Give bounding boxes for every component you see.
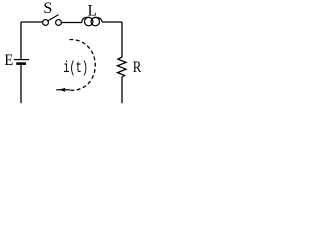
svg-text:i(t): i(t) — [63, 60, 88, 78]
svg-text:S: S — [43, 0, 52, 17]
svg-text:E: E — [4, 51, 13, 69]
svg-text:R: R — [133, 59, 142, 77]
svg-text:L: L — [88, 2, 97, 19]
